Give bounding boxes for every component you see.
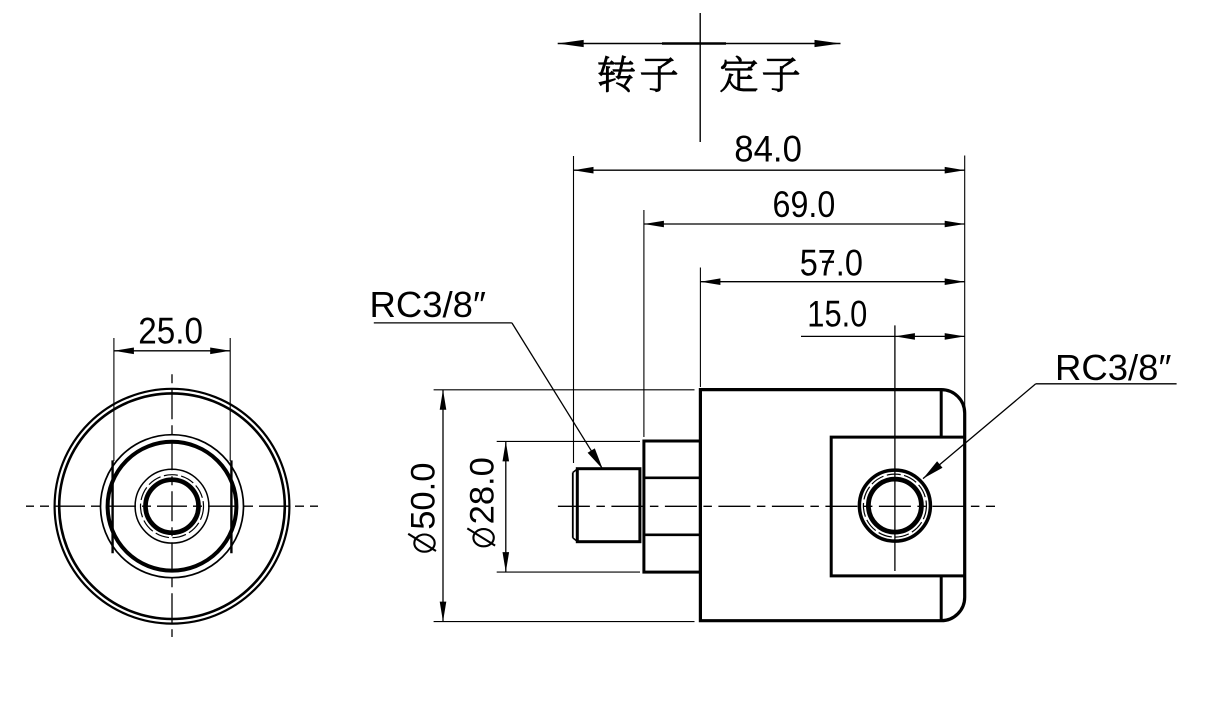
front wrench flat left xyxy=(111,460,113,553)
dim text phi50.0 xyxy=(405,462,443,551)
dim 57.0 ext left xyxy=(699,268,701,388)
body outline xyxy=(700,390,964,621)
front chamfer circle xyxy=(59,393,285,619)
shaft thread outline xyxy=(577,469,640,542)
dim text phi28.0 xyxy=(464,457,502,546)
stator label 定 xyxy=(721,56,757,91)
svg-text:84.0: 84.0 xyxy=(734,128,802,169)
leader RC3/8 left lines xyxy=(374,322,512,324)
rotor label 转 xyxy=(599,56,635,92)
svg-text:57.0: 57.0 xyxy=(800,243,863,284)
dim phi50 line xyxy=(442,390,444,622)
front thread outer thin circle xyxy=(135,469,209,543)
dim phi50 ext top xyxy=(434,389,695,391)
collar outline xyxy=(644,441,701,572)
front wrench flat right xyxy=(230,460,232,553)
leader RC3/8 right lines xyxy=(1036,383,1177,385)
front thread major circle xyxy=(141,475,204,538)
rotor/stator separator line xyxy=(699,13,701,142)
dim 25.0 line xyxy=(114,350,230,352)
svg-text:15.0: 15.0 xyxy=(807,293,867,334)
dim phi50 ext bottom xyxy=(434,621,695,623)
dim 25.0 extension line left xyxy=(113,338,115,461)
milled flat notch xyxy=(831,437,965,576)
stator label 子 xyxy=(763,58,798,92)
collar hex flat line bottom xyxy=(644,533,701,536)
side view horizontal centerline xyxy=(553,505,995,507)
svg-text:69.0: 69.0 xyxy=(773,184,836,225)
shaft end face xyxy=(572,473,574,538)
body flat tangent edge bottom xyxy=(940,576,943,621)
dim 84.0 line xyxy=(574,169,965,171)
front view horizontal centerline xyxy=(26,505,318,507)
body flat tangent edge top xyxy=(940,390,943,438)
dim 84.0 ext left xyxy=(573,156,575,463)
dim right ext line (84/69/57/15) xyxy=(964,156,966,408)
shaft chamfer bottom xyxy=(573,538,578,542)
front collar thick circle phi28 xyxy=(108,442,237,571)
rotor/stator line centre overdraw xyxy=(662,42,726,45)
svg-text:RC3/8″: RC3/8″ xyxy=(370,284,486,325)
svg-text:50.0: 50.0 xyxy=(405,462,443,529)
port vertical centerline / 15.0 ext xyxy=(894,325,896,571)
rotor label 子 xyxy=(641,58,676,92)
crossbar of 7 in 57.0 xyxy=(822,261,834,263)
dim phi28 ext top xyxy=(497,440,640,442)
dim 15.0 line with tail xyxy=(801,335,965,337)
dim 25.0 extension line right xyxy=(229,338,231,461)
dim 69.0 ext left xyxy=(643,210,645,437)
port thread circle xyxy=(863,474,926,537)
front collar thin circle xyxy=(101,435,244,578)
front bore thick circle xyxy=(146,480,199,533)
dim 57.0 line xyxy=(700,281,964,283)
svg-text:28.0: 28.0 xyxy=(464,457,502,524)
svg-text:RC3/8″: RC3/8″ xyxy=(1055,347,1171,388)
svg-text:25.0: 25.0 xyxy=(138,311,203,352)
dim phi28 ext bottom xyxy=(497,571,640,573)
dim phi28 line xyxy=(505,441,507,572)
rotor/stator double arrow line xyxy=(558,43,841,45)
shaft chamfer top xyxy=(573,469,578,473)
collar hex flat line top xyxy=(644,476,701,479)
front view vertical centerline xyxy=(171,374,173,637)
dim 69.0 line xyxy=(644,223,965,225)
port bore circle xyxy=(868,479,921,532)
port outer circle xyxy=(859,470,930,541)
front outer circle phi50 xyxy=(55,389,290,624)
